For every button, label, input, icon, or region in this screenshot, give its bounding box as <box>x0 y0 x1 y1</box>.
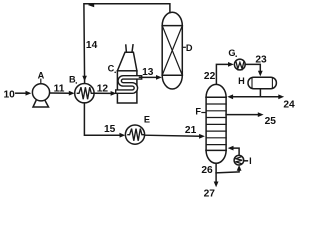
wire stream 25 <box>226 114 259 116</box>
svg-text:11: 11 <box>54 84 65 95</box>
arrow into pump A <box>26 91 32 96</box>
svg-text:22: 22 <box>204 71 216 82</box>
svg-text:26: 26 <box>201 165 213 176</box>
svg-text:E: E <box>144 115 150 125</box>
wire bottoms stream 26/27 <box>215 163 217 182</box>
svg-text:F: F <box>195 106 201 116</box>
wire reflux / stream 24 <box>232 89 279 97</box>
svg-text:14: 14 <box>86 40 98 51</box>
arrow into reboiler I <box>237 165 242 171</box>
svg-text:C: C <box>108 64 115 74</box>
svg-text:I: I <box>249 156 252 166</box>
svg-text:15: 15 <box>104 124 116 135</box>
arrow into drum H <box>258 71 263 77</box>
svg-text:13: 13 <box>142 67 154 78</box>
svg-text:B: B <box>69 75 76 85</box>
drum H <box>248 77 276 89</box>
label D tick <box>182 46 185 48</box>
wire stream 12 <box>94 92 111 94</box>
wire reboiler feed <box>216 170 239 173</box>
heat exchanger E <box>125 125 144 144</box>
wire stream 11 <box>50 92 70 94</box>
svg-text:23: 23 <box>255 55 267 66</box>
wire stream 13 <box>140 76 157 78</box>
arrow into exchanger B <box>69 91 75 96</box>
arrow into column F <box>199 134 205 139</box>
column D packing X <box>162 26 182 76</box>
svg-text:G: G <box>228 48 235 58</box>
arrow into exchanger E <box>119 133 125 138</box>
label I tick <box>245 160 248 162</box>
arrow stream 24 <box>278 94 284 99</box>
arrow stream 27 <box>214 182 219 188</box>
column D shell <box>162 26 182 76</box>
svg-text:21: 21 <box>185 125 197 136</box>
heat exchanger B <box>75 84 94 103</box>
furnace C roof <box>117 52 136 71</box>
arrow reflux into column F <box>227 94 233 99</box>
arrow into condenser G <box>228 62 234 67</box>
arrow into column D <box>156 75 162 80</box>
arrow stream 14 left <box>88 3 94 7</box>
svg-text:D: D <box>186 43 193 53</box>
pump A base <box>33 100 49 108</box>
arrow stream 25 <box>258 112 264 117</box>
reboiler I <box>234 155 244 165</box>
column F trays <box>206 104 226 145</box>
svg-text:12: 12 <box>97 83 109 94</box>
wire stream 10 <box>16 92 26 94</box>
wire stream 15 <box>84 103 120 135</box>
wire stream 22 <box>216 64 229 83</box>
wire stream 14 top <box>84 4 170 84</box>
furnace C coil <box>117 77 140 91</box>
svg-text:27: 27 <box>204 188 216 199</box>
furnace C stack <box>125 45 128 52</box>
svg-text:25: 25 <box>265 116 277 127</box>
condenser G <box>234 59 245 70</box>
svg-text:10: 10 <box>4 90 16 101</box>
column F shell <box>206 97 226 150</box>
svg-text:H: H <box>238 76 245 86</box>
arrow into furnace C <box>111 91 117 96</box>
wire reboiler return <box>233 148 240 155</box>
arrow reboiler return into column F <box>228 146 234 151</box>
pump A circle <box>32 84 49 101</box>
wire stream 21 <box>145 135 200 136</box>
wire stream 23 <box>245 64 260 71</box>
svg-text:24: 24 <box>283 99 295 110</box>
furnace C body <box>117 71 136 103</box>
arrow stream 14 into B <box>82 76 87 82</box>
